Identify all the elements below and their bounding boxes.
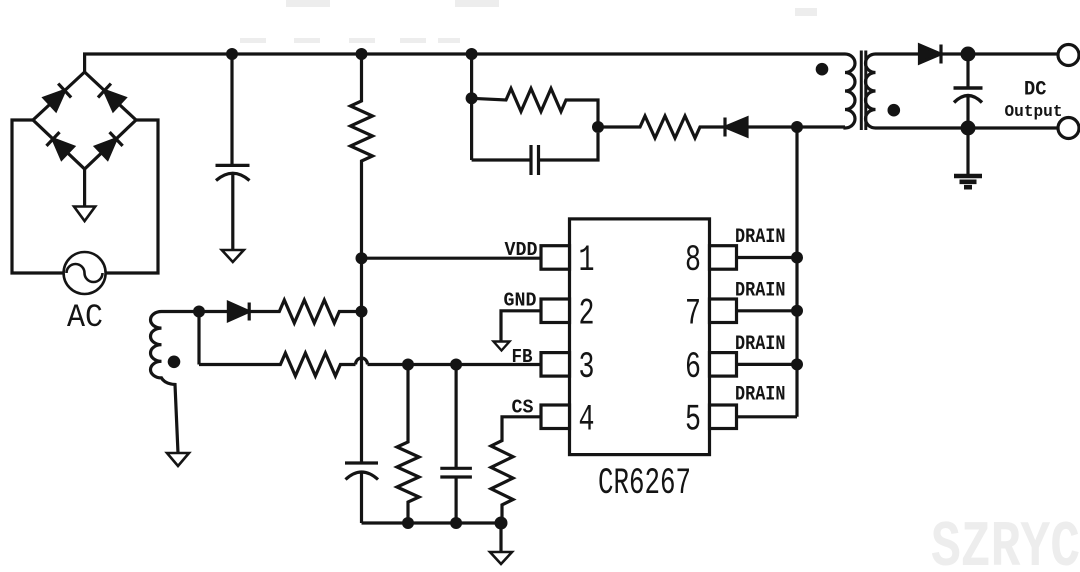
- pin 3 pad: [541, 353, 570, 377]
- ground arrow (CS): [490, 552, 512, 564]
- svg-text:DRAIN: DRAIN: [735, 384, 786, 407]
- ground arrow (bridge): [74, 207, 95, 222]
- resistor R1 (startup): [351, 54, 373, 463]
- node bottom / R6: [402, 517, 414, 529]
- wire C1 branch: [230, 54, 233, 165]
- wire bridge negative stub: [83, 169, 86, 207]
- svg-text:6: 6: [685, 347, 701, 389]
- svg-text:SZRYC: SZRYC: [931, 511, 1080, 572]
- diode D2 (snubber, pointing left): [726, 118, 748, 136]
- node output cap top: [961, 47, 976, 62]
- capacitor C1 (bulk electrolytic): [216, 164, 250, 167]
- node drain bus top: [791, 121, 803, 133]
- capacitor C4 (VDD, electrolytic): [345, 461, 378, 464]
- bridge diode D1c (bottom to left): [46, 132, 74, 160]
- transformer T1 primary winding: [845, 54, 855, 128]
- output terminal +: [1058, 45, 1079, 66]
- ground arrow (C1): [222, 250, 244, 262]
- wire secondary top: [876, 52, 920, 55]
- capacitor C3 (output): [966, 54, 969, 88]
- wire aux vertical: [197, 312, 200, 365]
- node FB / R6: [402, 359, 414, 371]
- wire aux to diode: [199, 310, 228, 313]
- wire top rail: [85, 54, 845, 72]
- pin 8 pad: [710, 246, 737, 270]
- wire bottom rail: [362, 521, 502, 524]
- IC U1 CR6267 body: [570, 219, 710, 455]
- svg-text:8: 8: [685, 240, 701, 282]
- node aux/R1 junction: [356, 306, 368, 318]
- wire drain bus: [795, 127, 798, 417]
- svg-text:VDD: VDD: [505, 239, 538, 261]
- node drain 7: [791, 305, 803, 317]
- pin 2 pad: [541, 299, 570, 323]
- node VDD junction: [356, 252, 368, 264]
- node bottom / C5: [450, 517, 462, 529]
- svg-text:5: 5: [685, 399, 701, 441]
- wire drain pin 5: [737, 415, 798, 418]
- svg-text:4: 4: [579, 399, 595, 441]
- wire drain pin 8: [737, 256, 798, 259]
- faint erased-watermark smudges: [240, 0, 817, 43]
- svg-text:FB: FB: [512, 346, 533, 368]
- svg-text:GND: GND: [504, 290, 537, 312]
- wire FB: [368, 363, 542, 366]
- aux winding L1: [150, 312, 178, 454]
- pin 5 pad: [710, 405, 737, 429]
- wire secondary bottom: [876, 126, 1059, 129]
- resistor R5 (FB row): [199, 353, 356, 376]
- svg-text:AC: AC: [67, 299, 103, 336]
- node top rail / C1: [226, 48, 238, 60]
- ground arrow (aux): [167, 453, 189, 466]
- bridge diode D1d (bottom to right): [95, 132, 123, 160]
- svg-text:Output: Output: [1005, 103, 1063, 122]
- transformer T1 secondary winding: [866, 54, 876, 128]
- diode D3 (output rectifier): [920, 45, 941, 63]
- wire AC loop left: [12, 120, 64, 273]
- resistor R3: [598, 116, 725, 138]
- wire to primary: [747, 125, 845, 128]
- node snubber left: [466, 92, 478, 104]
- svg-text:CS: CS: [512, 397, 534, 419]
- AC source V1: [64, 252, 106, 294]
- node bottom / CS: [495, 517, 508, 530]
- node drain 6: [791, 358, 803, 370]
- aux polarity dot: [168, 356, 181, 369]
- node drain 8: [791, 252, 803, 264]
- node snubber right: [592, 121, 604, 133]
- resistor R2 (snubber): [472, 89, 598, 128]
- svg-text:DC: DC: [1024, 79, 1047, 102]
- earth ground (output): [966, 128, 969, 174]
- svg-text:CR6267: CR6267: [598, 463, 691, 505]
- svg-text:3: 3: [579, 347, 595, 389]
- diode D4 (aux): [228, 303, 248, 321]
- pin 7 pad: [710, 299, 737, 323]
- wire AC loop right: [106, 120, 158, 273]
- pin 4 pad: [541, 405, 570, 429]
- resistor R4: [249, 300, 361, 323]
- ground arrow (GND pin): [494, 342, 510, 351]
- wire to output +: [941, 52, 1059, 55]
- wire GND pin: [501, 311, 541, 342]
- svg-text:DRAIN: DRAIN: [735, 333, 786, 356]
- wire VDD: [362, 257, 542, 260]
- resistor R6: [397, 365, 419, 524]
- svg-text:1: 1: [579, 240, 595, 282]
- svg-text:2: 2: [579, 293, 595, 335]
- primary polarity dot: [816, 63, 829, 76]
- pin 6 pad: [710, 353, 737, 377]
- bridge diode D1b (right to top): [98, 84, 126, 112]
- node top rail / R1: [356, 48, 368, 60]
- wire drain pin 7: [737, 309, 798, 312]
- resistor R7 (CS): [491, 417, 541, 523]
- wire snubber drop: [470, 54, 473, 160]
- svg-text:DRAIN: DRAIN: [735, 280, 786, 303]
- wire to ground: [499, 523, 502, 552]
- svg-text:DRAIN: DRAIN: [735, 226, 786, 249]
- capacitor C2 (snubber): [472, 158, 531, 161]
- wire hop over R1 line: [356, 358, 368, 365]
- svg-text:7: 7: [685, 293, 701, 335]
- wire drain pin 6: [737, 363, 798, 366]
- node aux top: [193, 306, 205, 318]
- bridge diode D1a (left to top): [44, 84, 72, 112]
- output terminal -: [1058, 118, 1079, 139]
- aux winding lead: [162, 310, 200, 313]
- node FB / C5: [450, 359, 462, 371]
- capacitor C5: [455, 365, 458, 469]
- transformer core: [860, 51, 863, 131]
- secondary polarity dot: [888, 104, 901, 117]
- pin 1 pad: [541, 246, 570, 270]
- node output cap bottom: [961, 121, 976, 136]
- node top rail / snubber: [466, 48, 478, 60]
- bridge rectifier diamond: [33, 72, 136, 169]
